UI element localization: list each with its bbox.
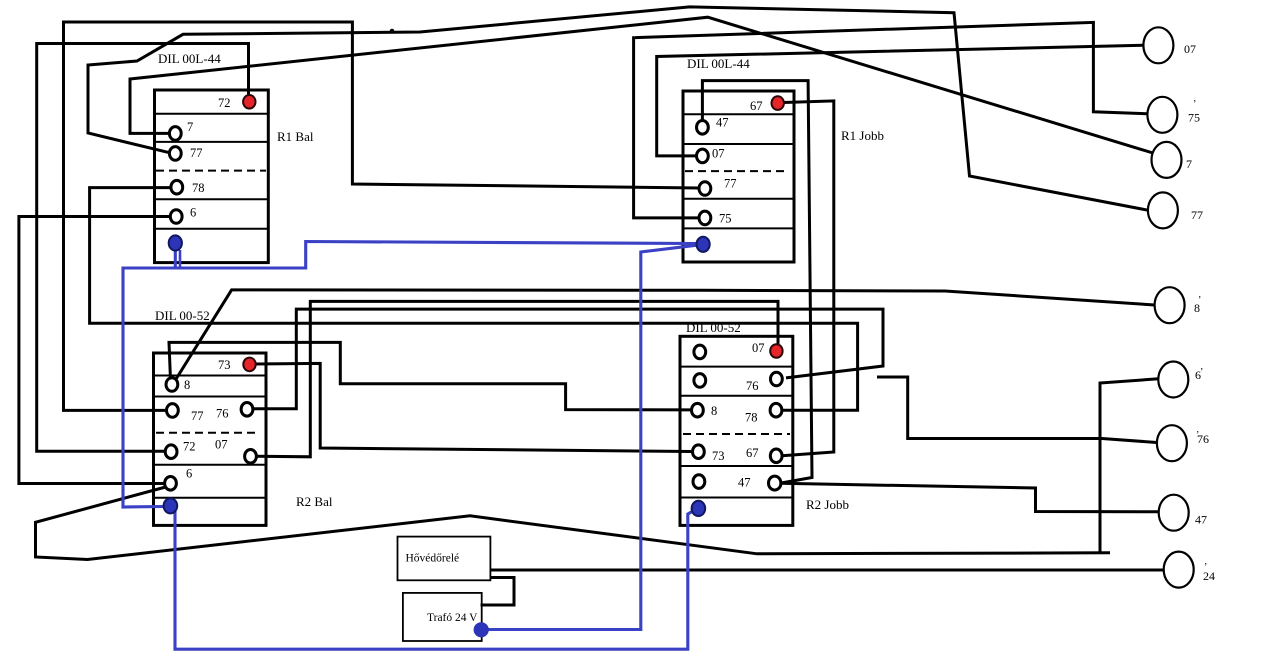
terminal circle 75 [1147,97,1177,133]
pin R1Jobb 75 [699,211,711,225]
svg-text:78: 78 [192,181,205,195]
terminal circle 76 [1157,425,1187,461]
svg-text:R1 Jobb: R1 Jobb [841,128,884,143]
pin R2Jobb 8 left [692,403,704,417]
terminal circle 8 [1155,287,1185,323]
wire tap to circle 76 [877,377,1157,443]
terminal circle 07 [1143,27,1173,63]
pin R2Jobb 76 right [771,372,783,386]
svg-text:6: 6 [186,467,192,481]
pin R2Jobb 67 right [770,449,782,463]
wire net 07 lower (R2Bal pin07 - R2Jobb red07) [256,301,778,456]
terminal circle 6 [1158,362,1188,398]
wire net 77b (R1Bal pin77 - circle 77) [88,7,1150,211]
pin R2Jobb row1 left [694,345,706,359]
svg-text:’: ’ [1196,430,1199,441]
relay R2 Bal box [154,353,267,525]
relay R1 Jobb box [683,91,794,262]
pin R2Bal 6 [165,477,177,491]
pin R1Bal 78 [171,180,183,194]
wire net 72 (R1Bal red72 - R2Bal pin72) [37,44,249,452]
pin R2Jobb row5 left [693,475,705,489]
svg-text:07: 07 [752,341,765,355]
pin R2Jobb row2 left [694,374,706,388]
svg-text:47: 47 [738,476,751,490]
pin R1Jobb blue [697,237,710,252]
svg-text:’: ’ [1204,562,1207,573]
svg-text:R2 Jobb: R2 Jobb [806,497,849,512]
svg-text:’: ’ [1198,295,1201,306]
relay R2 Jobb box [680,336,793,525]
node on wire B [390,29,395,34]
svg-text:Trafó 24 V: Trafó 24 V [427,612,478,624]
svg-text:73: 73 [218,358,231,372]
svg-text:77: 77 [1191,208,1203,222]
svg-text:72: 72 [183,440,196,454]
terminal circle 24 [1164,552,1194,588]
svg-text:’: ’ [1200,367,1203,378]
wire net 07 top (R1Jobb pin07 - circle 07) [657,45,1143,156]
svg-text:DIL 00L-44: DIL 00L-44 [158,51,221,66]
svg-text:76: 76 [216,407,229,421]
Hővédőrelé box [398,537,491,581]
blue wire branch to R1Jobb blue pin [175,242,696,269]
svg-text:75: 75 [1188,111,1200,125]
svg-text:Hővédőrelé: Hővédőrelé [406,553,460,565]
pins R1 Bal [169,127,182,224]
pin R1Bal 77 [169,147,181,161]
pins R1 Jobb [697,121,711,225]
pin R1Jobb 67 (red) [772,96,784,110]
svg-text:R1 Bal: R1 Bal [277,129,314,144]
pin R2Jobb 78 right [770,403,782,417]
pin R2Bal 76 right [241,403,253,417]
wire net 47b (R2Jobb pin47 - circle 47) [781,483,1159,512]
svg-text:47: 47 [1195,513,1207,527]
pin R1Bal 7 [169,127,181,141]
pin R2Jobb 07 (red) [770,344,782,358]
blue node Trafó terminal [474,622,489,637]
svg-text:’: ’ [1193,99,1196,110]
wire net 6' riser [1100,379,1159,553]
svg-text:7: 7 [1186,157,1192,171]
pin R2Bal 73 (red) [243,358,255,372]
Trafó 24 V box [403,593,482,641]
svg-text:67: 67 [746,446,759,460]
wire net 6' peak (R2Bal pin6 - circle 6) [36,487,1111,560]
pin R2Bal 77 [167,404,179,418]
svg-text:8: 8 [711,404,717,418]
svg-text:77: 77 [724,177,737,191]
svg-text:07: 07 [215,438,228,452]
relay R1 Bal box [155,90,269,263]
svg-text:73: 73 [712,449,725,463]
svg-text:67: 67 [750,99,763,113]
svg-text:DIL 00L-44: DIL 00L-44 [687,56,750,71]
svg-text:DIL 00-52: DIL 00-52 [155,308,210,323]
pin R2Bal 07 right [245,450,257,464]
svg-text:DIL 00-52: DIL 00-52 [686,320,741,335]
svg-text:75: 75 [719,212,732,226]
svg-text:76: 76 [746,379,759,393]
pin R1Bal blue [169,235,182,250]
svg-text:R2 Bal: R2 Bal [296,494,333,509]
pin R2Bal 8 [166,378,178,392]
terminal circle 47 [1159,495,1189,531]
pin R1Bal 6 [170,210,182,224]
svg-text:47: 47 [716,116,729,130]
wire net 78 (R1Bal pin78 - R2Jobb pin78) [90,188,858,411]
pin R1Bal 72 (red) [243,95,255,109]
wire net 8 upper (R2Bal pin8 - R2Jobb pin8) [169,342,692,410]
pins R2 Bal [165,378,257,490]
wire net 73 (R2Bal red73 - R2Jobb pin73) [255,363,693,451]
pin R2Jobb 47 right [769,476,781,490]
svg-text:72: 72 [218,96,231,110]
terminal circle 77 [1148,192,1178,228]
svg-text:8: 8 [184,378,190,392]
wire net 24 (Hővédőrelé - circle 24) [490,569,1164,572]
svg-text:77: 77 [190,146,203,160]
terminal circle 7 [1152,142,1182,178]
pin R2Jobb blue [692,501,706,516]
wire net 67 (R1Jobb red67 - R2Jobb pin67) [782,101,834,456]
svg-text:07: 07 [1184,42,1196,56]
svg-text:07: 07 [712,147,725,161]
svg-text:6: 6 [190,206,196,220]
blue wire pin loop R1Bal [179,250,182,267]
svg-text:78: 78 [745,411,758,425]
pin R2Jobb 73 left [693,445,705,459]
wire net 8 lower (R2Bal pin8 - circle 8) [175,290,1155,382]
pins R2 Jobb [692,345,783,490]
pin R1Jobb 77 [699,182,711,196]
pin R2Bal 72 [165,445,177,459]
svg-text:7: 7 [187,120,193,134]
blue wire R1Bal blue pin to R2Bal blue pin [123,245,175,507]
wire net 6 (R1Bal pin6 - R2Bal pin6) [19,217,170,484]
wire net 76 (R2Bal pin76 - R2Jobb pin76) [253,309,883,409]
wire Hővédőrelé-Trafó elbow [481,578,515,606]
pin R2Bal blue [164,498,178,513]
svg-text:77: 77 [191,409,204,423]
pin R1Jobb 47 [697,121,709,135]
blue wire R2Bal blue pin to R2Jobb blue pin [175,508,697,649]
pin R1Jobb 07 [697,149,709,163]
blue wire Trafó to R1Jobb blue pin [481,245,700,630]
wire net 7 (R1Bal pin7 - circle 7) [130,17,1155,153]
wire net 77 (R2Bal pin77 - R1Jobb pin77) [64,22,700,410]
wire net 47 (R1Jobb pin47 hook - R2Jobb pin47) [702,81,812,484]
wire net 75 (R1Jobb pin75 - circle 75) [634,22,1148,218]
